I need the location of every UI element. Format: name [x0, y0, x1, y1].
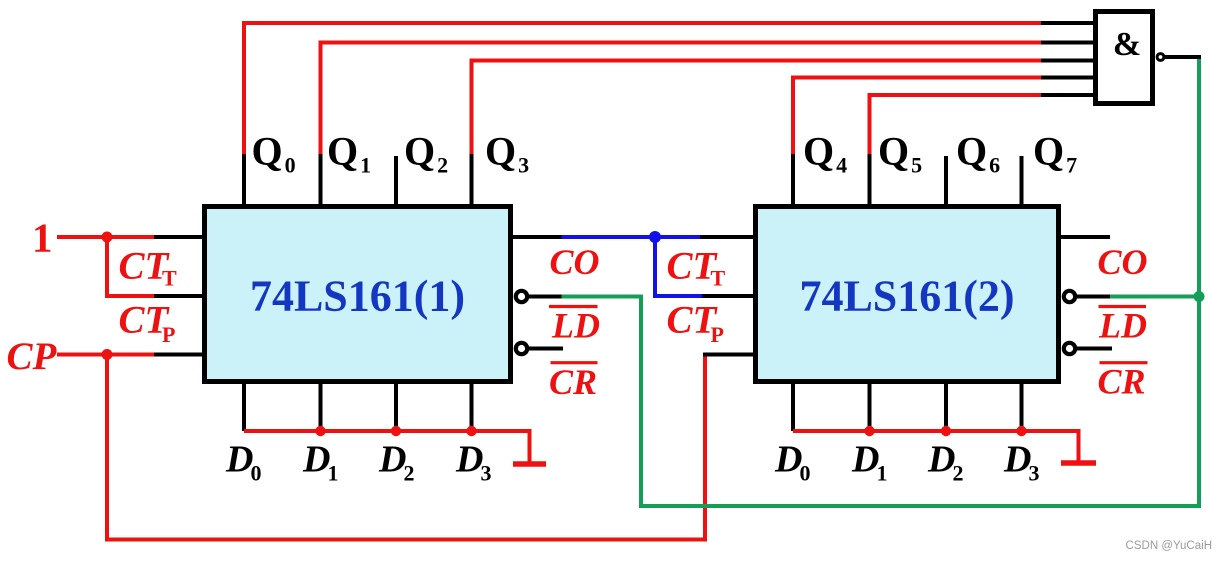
wire D bus chip2 (red) — [793, 431, 1079, 461]
svg-text:CR: CR — [1098, 362, 1146, 402]
wire D bus chip1 (red) — [244, 431, 530, 462]
wire gate input 3 black segment — [1041, 59, 1093, 63]
svg-text:CP: CP — [7, 335, 58, 378]
chip U1 74LS161(1) body — [205, 207, 511, 382]
wire gate input 2 black segment — [1041, 41, 1093, 45]
wire gate input 4 black segment — [1041, 76, 1093, 80]
wire LD2 green segment to right vertical — [1110, 295, 1199, 299]
gate U3 NAND body — [1096, 12, 1153, 104]
junction dot LD net (green) — [1194, 291, 1205, 302]
wire CR2 stub (black) — [1077, 347, 1112, 351]
junction dot CP (red) — [102, 349, 113, 360]
wire CO1 to junction (blue) — [562, 235, 658, 239]
pin D0 chip1 (black) — [242, 382, 246, 431]
pin D3 chip2 (black) — [1020, 382, 1024, 431]
wire LD2 stub (black) — [1077, 295, 1112, 299]
pin Q4 (black) — [791, 154, 795, 206]
pin Q1 (black) — [319, 154, 323, 206]
wire CP pin stub chip2 (black) — [703, 353, 755, 357]
pin D2 chip1 (black) — [394, 382, 398, 431]
wire gate input 1 black segment — [1041, 21, 1093, 25]
wire CP down and across bottom to chip2 (red) — [107, 355, 705, 540]
svg-text:T: T — [162, 266, 177, 291]
pin Q2 (black) — [394, 156, 398, 206]
pin D1 chip1 (black) — [319, 382, 323, 431]
wire CT_T2 pin stub (black) — [700, 235, 755, 239]
wire CO1 stub (black) — [511, 235, 563, 239]
pin D3 chip1 (black) — [470, 382, 474, 431]
svg-text:&: & — [1113, 26, 1141, 63]
wire blue junction to CT_T2 (blue) — [655, 235, 702, 239]
svg-text:P: P — [162, 322, 175, 347]
wire Q0 to gate input 1 (red) — [244, 23, 1043, 156]
label CR chip2 overline — [1100, 361, 1148, 364]
wire Q3 to gate input 3 (red) — [472, 61, 1044, 157]
svg-text:LD: LD — [1098, 306, 1147, 346]
svg-text:CSDN @YuCaiH: CSDN @YuCaiH — [1126, 540, 1212, 552]
junction dot CO1 net (blue) — [649, 231, 661, 243]
wire Q4 to gate input 4 (red) — [793, 78, 1043, 157]
wire node 1 feed to CT_T pin (red) — [57, 235, 156, 239]
pin Q6 (black) — [944, 156, 948, 206]
wire CP feed (red) — [57, 353, 156, 357]
svg-text:LD: LD — [551, 306, 600, 346]
junction dot D3 chip1 (red) — [466, 426, 476, 436]
pin Q7 (black) — [1020, 156, 1024, 206]
junction dot D1 chip1 (red) — [315, 426, 325, 436]
pin Q0 (black) — [242, 154, 246, 206]
wire LD1 stub (black) — [529, 295, 563, 299]
wire gate output (black) — [1164, 55, 1201, 59]
wire Q1 to gate input 2 (red) — [321, 43, 1044, 157]
wire CO2 stub (black) — [1059, 235, 1110, 239]
wire gate input 5 black segment — [1041, 93, 1093, 97]
wire CR1 stub (black) — [529, 347, 563, 351]
pin D2 chip2 (black) — [944, 382, 948, 431]
label LD chip1 overline — [549, 305, 598, 308]
wire LD1 green segment to corner — [562, 59, 1200, 506]
wire CP pin stub chip1 (black) — [154, 353, 204, 357]
wire CT_P2 pin stub (black) — [702, 294, 755, 298]
ground bar chip2 (red) — [1061, 460, 1096, 466]
pin D0 chip2 (black) — [791, 382, 795, 431]
junction dot D2 chip1 (red) — [391, 426, 401, 436]
pin bubble CR1 — [516, 343, 527, 354]
svg-text:74LS161(2): 74LS161(2) — [799, 272, 1014, 321]
pin bubble LD2 — [1064, 291, 1075, 302]
wire branch 1-feed down to CT_P (red) — [107, 237, 156, 296]
pin Q5 (black) — [868, 154, 872, 206]
junction dot D1 chip2 (red) — [864, 426, 874, 436]
svg-text:CO: CO — [1098, 242, 1148, 282]
svg-text:T: T — [711, 266, 726, 291]
svg-text:CO: CO — [550, 242, 600, 282]
pin D1 chip2 (black) — [868, 382, 872, 431]
wire Q5 to gate input 5 (red) — [870, 95, 1044, 156]
pin Q3 (black) — [470, 154, 474, 206]
gate U3 output bubble — [1157, 54, 1164, 61]
svg-text:CR: CR — [549, 362, 597, 402]
junction dot D2 chip2 (red) — [941, 426, 951, 436]
svg-text:1: 1 — [32, 215, 53, 261]
wire blue branch down to CT_P2 (blue) — [655, 237, 704, 296]
label LD chip2 overline — [1099, 305, 1147, 308]
ground bar chip1 (red) — [513, 461, 546, 467]
wire CT_P pin stub (black) — [154, 294, 204, 298]
wire CT_T pin stub (black) — [154, 235, 204, 239]
svg-text:74LS161(1): 74LS161(1) — [250, 272, 465, 321]
chip U2 74LS161(2) body — [756, 207, 1059, 382]
pin bubble LD1 — [516, 291, 527, 302]
svg-text:P: P — [711, 322, 724, 347]
pin bubble CR2 — [1064, 343, 1075, 354]
junction dot node 1 (red) — [102, 232, 113, 243]
junction dot D3 chip2 (red) — [1016, 426, 1026, 436]
label CR chip1 overline — [551, 361, 598, 364]
